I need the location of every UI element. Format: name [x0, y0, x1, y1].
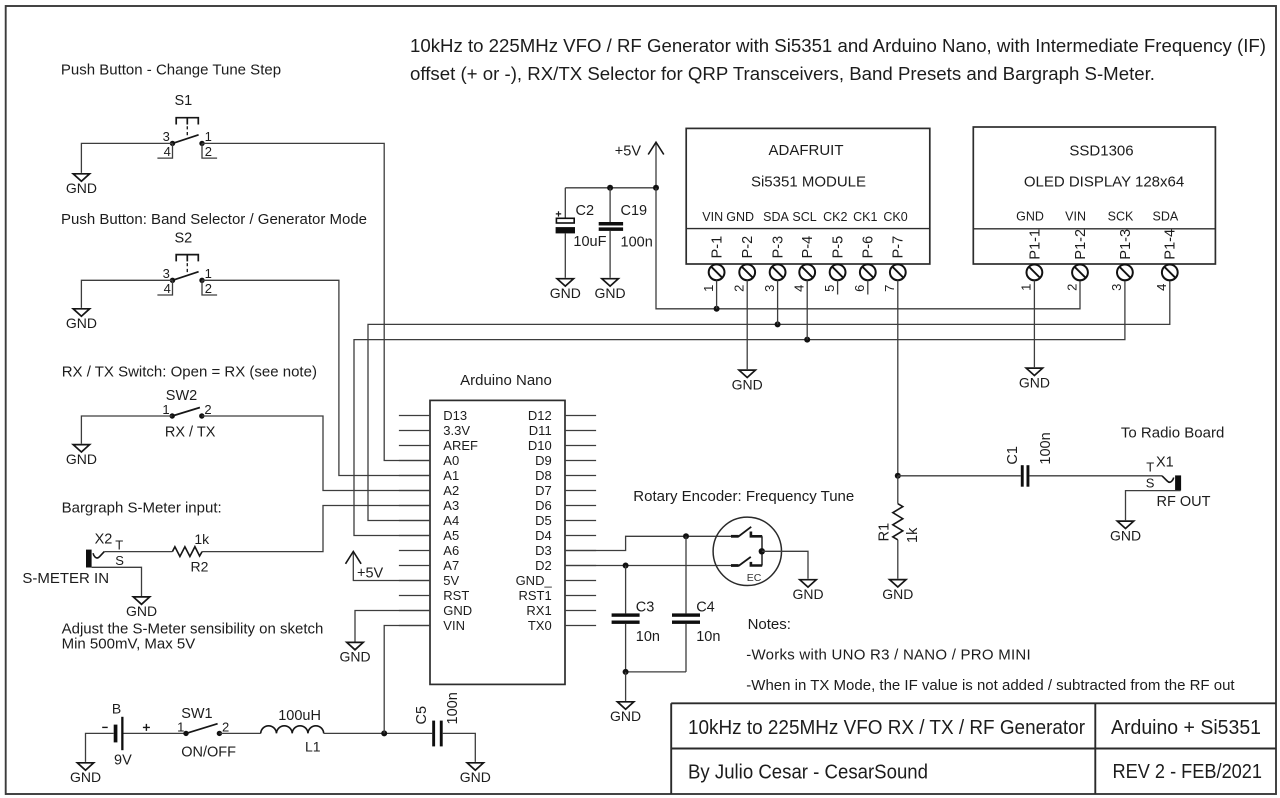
wire battery minus to GND [86, 733, 114, 762]
svg-text:C4: C4 [696, 600, 715, 616]
wire SW1 to L1 [219, 732, 260, 734]
svg-text:10kHz to 225MHz VFO RX / TX /: 10kHz to 225MHz VFO RX / TX / RF Generat… [688, 716, 1085, 739]
svg-text:RST1: RST1 [518, 588, 551, 603]
switch SW1 ON/OFF [177, 706, 236, 761]
wire encoder common to GND [762, 551, 808, 579]
pin AREF (left) [399, 438, 478, 453]
wire battery plus to SW1 [124, 732, 187, 734]
svg-text:P-1: P-1 [710, 236, 726, 259]
pin P-1 VIN [701, 210, 726, 292]
svg-text:Push Button: Band Selector / G: Push Button: Band Selector / Generator M… [61, 211, 367, 228]
svg-text:D3: D3 [535, 543, 552, 558]
wire P-1 to +5V rail [716, 280, 718, 309]
svg-text:GND: GND [339, 649, 370, 665]
ground [66, 445, 97, 467]
svg-text:L1: L1 [305, 738, 321, 754]
svg-text:RF OUT: RF OUT [1157, 494, 1211, 510]
svg-text:R1: R1 [876, 523, 892, 542]
pin P1-3 SCK [1108, 210, 1134, 291]
wire C2 to GND [564, 233, 566, 277]
svg-text:GND: GND [792, 586, 823, 602]
svg-text:P1-4: P1-4 [1163, 229, 1179, 260]
node P-4 SCL junction [804, 337, 810, 343]
ground [595, 279, 626, 301]
wire X2 sleeve to GND [92, 567, 142, 596]
svg-text:ON/OFF: ON/OFF [181, 745, 236, 761]
op-amp U1: Arduino Nano module [430, 372, 565, 684]
svg-text:Si5351 MODULE: Si5351 MODULE [751, 174, 866, 191]
pin A4 (left) [399, 513, 459, 528]
pin D4 (right) [535, 528, 596, 543]
pin RST1 (right) [518, 588, 596, 603]
svg-text:10kHz to 225MHz VFO / RF Gener: 10kHz to 225MHz VFO / RF Generator with … [410, 35, 1266, 56]
svg-text:S: S [1146, 475, 1155, 490]
resistor R1 1k [876, 476, 921, 543]
svg-text:SW2: SW2 [166, 388, 197, 404]
svg-text:SCL: SCL [792, 210, 816, 224]
svg-text:3.3V: 3.3V [443, 423, 470, 438]
push button S2 [157, 230, 217, 296]
svg-text:VIN: VIN [702, 210, 723, 224]
op-amp U2: Adafruit Si5351 module [686, 128, 930, 264]
pin A6 (left) [399, 543, 459, 558]
pin 3.3V (left) [399, 423, 470, 438]
ground [339, 642, 370, 664]
node heading: schematic description [410, 35, 1266, 84]
svg-text:GND: GND [882, 586, 913, 602]
pin D2 (right) [535, 558, 596, 573]
wire X1 sleeve to GND [1126, 491, 1181, 521]
svg-text:D11: D11 [529, 423, 552, 438]
svg-text:VIN: VIN [443, 618, 465, 633]
wire P-3 to SDA rail [777, 280, 779, 324]
svg-text:X2: X2 [95, 532, 113, 548]
svg-text:GND: GND [732, 376, 763, 392]
svg-text:SSD1306: SSD1306 [1069, 143, 1133, 160]
svg-text:100n: 100n [445, 692, 461, 724]
svg-text:GND: GND [70, 769, 101, 785]
capacitor C2 10uF [556, 188, 607, 250]
svg-text:Min 500mV, Max 5V: Min 500mV, Max 5V [62, 636, 196, 653]
pin P-3 SDA [762, 210, 790, 292]
svg-text:100n: 100n [621, 234, 653, 250]
wire L1 to C5 / VIN node [324, 732, 433, 734]
svg-text:P1-1: P1-1 [1027, 229, 1043, 260]
svg-text:2: 2 [732, 285, 747, 292]
svg-text:P-3: P-3 [771, 236, 787, 259]
svg-text:C5: C5 [414, 706, 430, 725]
svg-text:CK2: CK2 [823, 210, 847, 224]
wire C1 to X1 tip [1029, 475, 1162, 477]
svg-text:Notes:: Notes: [748, 616, 791, 633]
pin P1-2 VIN [1064, 210, 1089, 291]
node RF junction [895, 473, 901, 479]
note: s-meter sensibility [62, 621, 324, 653]
pin D7 (right) [535, 483, 596, 498]
svg-text:2: 2 [205, 281, 212, 296]
svg-text:10n: 10n [696, 629, 720, 645]
svg-text:P-5: P-5 [831, 236, 847, 259]
svg-text:D5: D5 [535, 513, 552, 528]
capacitor C3 10n [612, 566, 660, 645]
svg-text:-Works with UNO R3 / NANO / P: -Works with UNO R3 / NANO / PRO MINI [746, 646, 1031, 663]
svg-text:+5V: +5V [357, 566, 384, 582]
wire C19 to GND [609, 231, 611, 278]
svg-text:CK1: CK1 [853, 210, 877, 224]
wire VIN node to Arduino VIN [384, 626, 430, 734]
svg-text:1k: 1k [194, 531, 210, 547]
svg-text:AREF: AREF [443, 438, 478, 453]
pin D8 (right) [535, 468, 596, 483]
svg-text:3: 3 [163, 129, 170, 144]
svg-text:2: 2 [222, 720, 229, 735]
svg-text:P-6: P-6 [861, 236, 877, 259]
svg-text:4: 4 [164, 144, 171, 159]
svg-text:GND: GND [66, 451, 97, 467]
pin A3 (left) [399, 498, 459, 513]
svg-text:D4: D4 [535, 528, 552, 543]
wire P-4 to SCL rail [806, 280, 808, 339]
wire SW2 pin 2 to Arduino A2 [202, 416, 430, 491]
svg-text:1: 1 [162, 402, 169, 417]
wire SDA rail (A4 to OLED SDA) [368, 280, 1170, 520]
svg-text:D6: D6 [535, 498, 552, 513]
svg-text:D9: D9 [535, 453, 552, 468]
capacitor C19 100n [599, 188, 653, 251]
wire GND to S1 pin 3 [81, 143, 172, 173]
pin A5 (left) [399, 528, 459, 543]
svg-text:1: 1 [205, 129, 212, 144]
pin P-6 CK1 [852, 210, 877, 292]
svg-text:5V: 5V [443, 573, 459, 588]
ground [126, 597, 157, 619]
svg-text:-When in TX Mode, the IF value: -When in TX Mode, the IF value is not ad… [746, 677, 1235, 694]
pin GND (left) [399, 603, 472, 618]
svg-text:T: T [115, 537, 123, 552]
svg-text:GND: GND [66, 180, 97, 196]
svg-text:SDA: SDA [763, 210, 789, 224]
svg-text:GND: GND [550, 285, 581, 301]
svg-text:RX / TX: RX / TX [165, 424, 216, 440]
pin RX1 (right) [526, 603, 596, 618]
svg-text:D2: D2 [535, 558, 552, 573]
resistor R2 1k [172, 531, 210, 574]
svg-text:SCK: SCK [1108, 210, 1134, 224]
svg-text:C19: C19 [621, 203, 648, 219]
pin D3 (right) [535, 543, 596, 558]
svg-text:GND: GND [126, 603, 157, 619]
pin P-5 CK2 [822, 210, 848, 292]
pin D12 (right) [528, 408, 596, 423]
svg-text:GND_: GND_ [516, 573, 553, 588]
svg-text:GND: GND [1019, 374, 1050, 390]
ground [66, 309, 97, 331]
wire P-5 stub [837, 280, 839, 294]
ground [66, 174, 97, 196]
wire Arduino GND pin to ground [355, 611, 430, 642]
svg-text:RX1: RX1 [526, 603, 551, 618]
svg-text:3: 3 [163, 266, 170, 281]
node C19 junction [607, 185, 613, 191]
wire RF node to C1 [898, 475, 1021, 477]
wire GND to SW2 pin 1 [81, 416, 172, 444]
pin P-7 CK0 [882, 210, 908, 292]
svg-text:100n: 100n [1038, 432, 1054, 464]
ground [460, 763, 491, 785]
svg-text:CK0: CK0 [883, 210, 907, 224]
power +5V at Arduino 5V pin [353, 580, 430, 582]
wire S1 pin 1 to Arduino A0 [202, 143, 430, 460]
svg-text:10uF: 10uF [573, 234, 606, 250]
svg-text:A3: A3 [443, 498, 459, 513]
ground [1110, 521, 1141, 543]
svg-text:GND: GND [460, 769, 491, 785]
ground [610, 702, 641, 724]
svg-text:RX / TX Switch: Open = RX (see: RX / TX Switch: Open = RX (see note) [62, 363, 317, 380]
pin P1-1 GND [1016, 210, 1044, 291]
svg-text:4: 4 [792, 285, 807, 292]
node +5V junction [653, 185, 659, 191]
svg-text:offset (+ or -), RX/TX Selecto: offset (+ or -), RX/TX Selector for QRP … [410, 63, 1155, 84]
wire S2 pin 1 to Arduino A1 [202, 280, 430, 475]
svg-text:1k: 1k [905, 527, 921, 543]
svg-text:1: 1 [205, 266, 212, 281]
wire Arduino D3 to encoder A [565, 536, 731, 550]
svg-text:4: 4 [1154, 284, 1169, 291]
svg-text:S2: S2 [175, 230, 193, 246]
pin D6 (right) [535, 498, 596, 513]
svg-text:A2: A2 [443, 483, 459, 498]
svg-text:OLED DISPLAY 128x64: OLED DISPLAY 128x64 [1024, 174, 1184, 191]
svg-text:A6: A6 [443, 543, 459, 558]
note: notes block [746, 616, 1235, 694]
svg-text:P1-3: P1-3 [1118, 229, 1134, 260]
svg-text:SDA: SDA [1153, 210, 1179, 224]
capacitor C5 100n [414, 692, 461, 746]
svg-text:Push Button - Change Tune Step: Push Button - Change Tune Step [61, 61, 281, 78]
pin TX0 (right) [528, 618, 596, 633]
svg-text:D12: D12 [528, 408, 552, 423]
pin P-2 GND [726, 210, 756, 292]
wire +5V rail to OLED VIN [656, 188, 1080, 309]
svg-text:A1: A1 [443, 468, 459, 483]
svg-text:R2: R2 [191, 558, 209, 574]
wire P-7 CK0 to RF node [897, 280, 899, 476]
svg-text:P-4: P-4 [800, 236, 816, 259]
svg-text:RST: RST [443, 588, 469, 603]
inductor L1 100uH [261, 708, 324, 754]
pin VIN (left) [399, 618, 465, 633]
svg-text:2: 2 [1064, 284, 1079, 291]
pin D5 (right) [535, 513, 596, 528]
svg-text:GND: GND [66, 315, 97, 331]
ground [550, 279, 581, 301]
ground [732, 370, 763, 392]
svg-text:X1: X1 [1156, 455, 1174, 471]
svg-text:To Radio Board: To Radio Board [1121, 425, 1224, 442]
wire GND to S2 pin 3 [81, 280, 172, 308]
switch SW2 RX/TX [162, 388, 215, 440]
wire P1-1 to GND [1033, 280, 1035, 367]
node P-1 +5V junction [714, 306, 720, 312]
wire R1 to GND [897, 540, 899, 579]
pin A0 (left) [399, 453, 459, 468]
svg-text:D13: D13 [443, 408, 467, 423]
wire C3/C4 bottoms to GND [626, 624, 686, 672]
svg-text:GND: GND [1016, 210, 1044, 224]
svg-text:D10: D10 [528, 438, 552, 453]
pin 5V (left) [399, 573, 460, 588]
svg-text:S1: S1 [175, 93, 193, 109]
svg-text:C1: C1 [1005, 446, 1021, 465]
pin RST (left) [399, 588, 469, 603]
svg-text:1: 1 [701, 285, 716, 292]
pin GND_ (right) [516, 573, 597, 588]
svg-text:Arduino + Si5351: Arduino + Si5351 [1111, 716, 1261, 739]
capacitor C1 100n [1005, 432, 1054, 486]
wire X2 tip to R2 [104, 551, 172, 553]
svg-text:A0: A0 [443, 453, 459, 468]
svg-text:6: 6 [852, 285, 867, 292]
svg-text:A5: A5 [443, 528, 459, 543]
svg-text:SW1: SW1 [181, 706, 212, 722]
svg-text:Rotary Encoder: Frequency Tune: Rotary Encoder: Frequency Tune [633, 488, 854, 505]
wire P-2 to GND [746, 280, 748, 369]
op-amp U3: SSD1306 OLED display [973, 127, 1215, 264]
svg-text:1: 1 [177, 720, 184, 735]
svg-text:EC: EC [747, 572, 762, 584]
connector X2 S-METER IN [22, 532, 124, 588]
svg-text:S-METER IN: S-METER IN [22, 570, 109, 587]
wire C5 to GND [443, 733, 476, 762]
svg-text:Arduino Nano: Arduino Nano [460, 372, 552, 389]
svg-text:5: 5 [822, 285, 837, 292]
svg-text:By Julio Cesar - CesarSound: By Julio Cesar - CesarSound [688, 761, 928, 784]
svg-text:9V: 9V [114, 753, 132, 769]
ground [882, 580, 913, 602]
svg-text:3: 3 [762, 285, 777, 292]
wire +5V rail to C2/C19 [565, 187, 656, 189]
svg-text:D7: D7 [535, 483, 552, 498]
svg-text:P1-2: P1-2 [1073, 229, 1089, 260]
pin D9 (right) [535, 453, 596, 468]
node P-3 SDA junction [775, 321, 781, 327]
pin P-4 SCL [792, 210, 817, 292]
svg-text:P-2: P-2 [740, 236, 756, 259]
svg-text:S: S [115, 553, 124, 568]
svg-text:3: 3 [1109, 284, 1124, 291]
push button S1 [157, 93, 217, 159]
battery B 9V [102, 701, 150, 769]
svg-text:ADAFRUIT: ADAFRUIT [769, 142, 844, 159]
ground [70, 763, 101, 785]
svg-text:GND: GND [726, 210, 754, 224]
node C4 junction [683, 533, 689, 539]
svg-text:C3: C3 [636, 600, 655, 616]
svg-text:100uH: 100uH [278, 708, 321, 724]
svg-text:VIN: VIN [1065, 210, 1086, 224]
node VIN junction [381, 730, 387, 736]
svg-text:B: B [112, 701, 121, 717]
rotary encoder EC [713, 517, 781, 585]
power +5V supply node [615, 142, 664, 188]
svg-text:P-7: P-7 [891, 236, 907, 259]
svg-text:GND: GND [1110, 527, 1141, 543]
wire Arduino D2 to encoder B [565, 565, 731, 567]
svg-text:2: 2 [205, 144, 212, 159]
svg-text:GND: GND [443, 603, 472, 618]
ground [1019, 368, 1050, 390]
pin P1-4 SDA [1153, 210, 1179, 291]
capacitor C4 10n [672, 536, 720, 645]
svg-text:1: 1 [1019, 284, 1034, 291]
svg-text:A7: A7 [443, 558, 459, 573]
svg-text:7: 7 [882, 285, 897, 292]
svg-text:D8: D8 [535, 468, 552, 483]
wire P-6 stub [867, 280, 869, 294]
wire R2 to Arduino A3 [202, 506, 430, 552]
svg-text:Bargraph S-Meter input:: Bargraph S-Meter input: [62, 500, 222, 517]
wire SCL rail (A5 to OLED SCK) [354, 280, 1125, 535]
node C3 ground junction [623, 669, 629, 675]
pin D13 (left) [399, 408, 467, 423]
svg-text:T: T [1146, 460, 1154, 475]
svg-text:GND: GND [595, 285, 626, 301]
pin D10 (right) [528, 438, 596, 453]
svg-text:A4: A4 [443, 513, 459, 528]
pin D11 (right) [529, 423, 596, 438]
svg-text:GND: GND [610, 708, 641, 724]
svg-text:C2: C2 [576, 203, 595, 219]
svg-text:10n: 10n [636, 629, 660, 645]
pin A2 (left) [399, 483, 459, 498]
pin A7 (left) [399, 558, 459, 573]
svg-text:REV 2 - FEB/2021: REV 2 - FEB/2021 [1113, 760, 1263, 783]
connector X1 RF OUT [1146, 455, 1211, 511]
pin A1 (left) [399, 468, 459, 483]
svg-text:4: 4 [164, 281, 171, 296]
ground [792, 580, 823, 602]
svg-text:+5V: +5V [615, 143, 642, 159]
svg-text:2: 2 [204, 402, 211, 417]
node C3 junction [623, 563, 629, 569]
svg-text:TX0: TX0 [528, 618, 552, 633]
note: title block [671, 703, 1276, 794]
